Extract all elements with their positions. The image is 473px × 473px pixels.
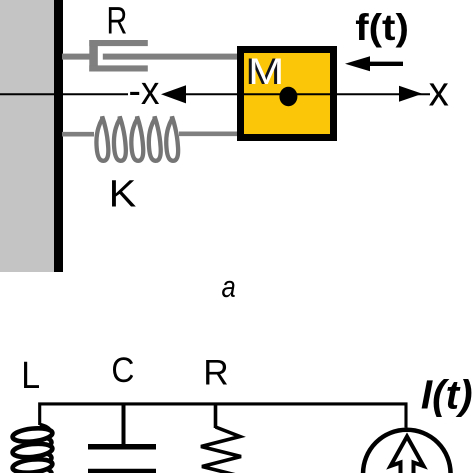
- svg-text:R: R: [107, 0, 128, 42]
- axis arrowhead right (to x): [399, 86, 422, 102]
- inductor L: coil: [12, 425, 53, 473]
- svg-text:L: L: [21, 354, 40, 396]
- svg-text:C: C: [111, 352, 134, 391]
- resistor R: zigzag: [201, 427, 241, 473]
- spring K: stub wire to mass: [179, 132, 239, 137]
- node: center-of-mass dot: [279, 87, 297, 106]
- damper R: stub wire from wall: [62, 54, 90, 60]
- svg-text:f(t): f(t): [355, 7, 409, 48]
- svg-text:M: M: [248, 51, 284, 92]
- damper R: piston rod to mass: [103, 54, 239, 60]
- svg-text:x: x: [429, 68, 450, 115]
- capacitor C: bottom plate: [88, 469, 156, 473]
- wire: arrow toward -x (axis arrowhead left): [161, 85, 186, 103]
- svg-text:-x: -x: [129, 69, 160, 113]
- mass M block: [241, 50, 334, 138]
- current source I(t): circle: [363, 430, 451, 473]
- fixed support bar: [54, 0, 63, 272]
- spring K: coil loops: [96, 117, 178, 161]
- current source I(t): hollow up arrow: [391, 437, 424, 473]
- svg-text:R: R: [203, 353, 228, 392]
- wall (hatched support): [0, 0, 54, 272]
- spring K: stub wire from wall: [62, 132, 94, 137]
- capacitor C: top plate: [88, 444, 156, 450]
- svg-text:I(t): I(t): [421, 372, 473, 418]
- capacitor C: lead: [122, 404, 126, 444]
- wire: axis line through mass: [244, 93, 430, 95]
- wire: x-axis line left segment: [0, 93, 128, 95]
- force arrow f(t): [369, 62, 403, 66]
- wire: circuit top rail: [40, 404, 406, 428]
- resistor R: lead: [214, 404, 218, 428]
- svg-text:K: K: [109, 173, 137, 215]
- damper R: cup (open right): [89, 40, 98, 72]
- svg-text:a: a: [222, 270, 236, 304]
